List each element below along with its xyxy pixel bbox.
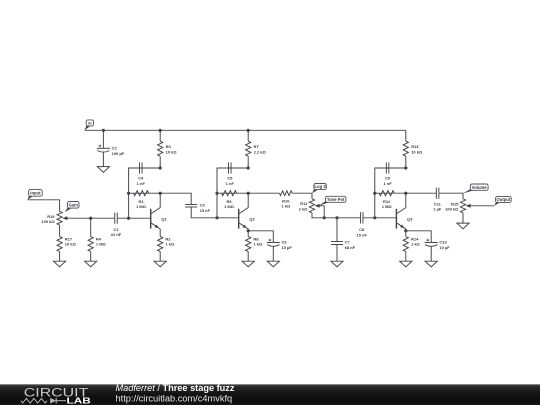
wire: C3 to Q2 base [191, 207, 239, 218]
svg-text:Q3: Q3 [407, 216, 413, 221]
capacitor C3 [185, 203, 210, 213]
node flag Lug 3 [312, 184, 326, 194]
capacitor C10 [425, 239, 451, 250]
wire: C10 to ground [430, 246, 432, 261]
wire: feedback loop stage 2 [217, 168, 248, 218]
capacitor C2 [97, 145, 125, 156]
wire: C7 column [336, 218, 338, 242]
wire: collector column Q1 [159, 193, 161, 208]
svg-text:68 nF: 68 nF [345, 245, 356, 250]
svg-text:10 kΩ: 10 kΩ [65, 242, 77, 247]
svg-text:2 kΩ: 2 kΩ [299, 206, 309, 211]
svg-text:1 nF: 1 nF [383, 181, 392, 186]
transistor Q1 [151, 208, 168, 229]
wire: R8 to ground [247, 252, 249, 262]
wire: R3 to collector node [159, 156, 161, 168]
wire: R12 row stage 3 [375, 192, 406, 194]
svg-text:1 MΩ: 1 MΩ [136, 204, 147, 209]
junction: base node stage 3 [373, 216, 376, 219]
junction: base node stage 1 [127, 217, 130, 220]
resistor R14 [403, 237, 420, 252]
wire: Q2 emitter node [247, 229, 249, 237]
ground (R17) [54, 261, 66, 267]
wire: input to gain pot [28, 200, 60, 212]
transistor Q3 [396, 208, 413, 229]
junction: wiper/bottom row [323, 216, 326, 219]
resistor R4 [88, 218, 106, 261]
ground (C7) [331, 261, 343, 267]
svg-text:15 nF: 15 nF [356, 232, 367, 237]
junction: collector node Q2 [247, 166, 250, 169]
wire: rail drop to R13 [405, 130, 407, 141]
junction: R12/base column [373, 192, 376, 195]
ground (R8) [242, 261, 254, 267]
svg-text:Output: Output [497, 197, 511, 202]
wire: R13 to collector node [405, 156, 407, 168]
potentiometer R15 (Volume) [445, 199, 494, 213]
wire: R10 to R11 [311, 193, 313, 199]
svg-text:22 nF: 22 nF [111, 232, 122, 237]
svg-text:1 µF: 1 µF [433, 207, 442, 212]
wire: Q3 emitter node [405, 229, 407, 237]
CircuitLab logo diode [50, 398, 56, 404]
svg-text:10 kΩ: 10 kΩ [411, 149, 423, 154]
CircuitLab logo resistor squiggle [21, 398, 47, 403]
svg-text:1 kΩ: 1 kΩ [253, 242, 263, 247]
node flag Input [28, 190, 43, 200]
resistor R6 [221, 191, 236, 210]
capacitor C2 lead wire [102, 130, 104, 148]
capacitor C8 [356, 212, 367, 237]
svg-text:Lug 3: Lug 3 [315, 184, 327, 189]
wire: wiper row to C1 [91, 217, 115, 219]
svg-text:1 nF: 1 nF [137, 181, 146, 186]
junction: R6/collector column [247, 192, 250, 195]
junction: rail/C2 [102, 129, 105, 132]
junction: R12/collector column [404, 192, 407, 195]
resistor R17 [57, 237, 77, 252]
capacitor C9 [383, 162, 392, 185]
potentiometer R11 (Tone Pot) [299, 199, 325, 213]
svg-text:10 kΩ: 10 kΩ [166, 149, 178, 154]
wire: R16 to R17 [59, 225, 61, 237]
capacitor C5 [226, 162, 235, 185]
ground (R4) [85, 261, 97, 267]
svg-text:1 MΩ: 1 MΩ [382, 204, 393, 209]
resistor R7 [246, 141, 267, 156]
svg-text:2.2 kΩ: 2.2 kΩ [254, 149, 267, 154]
wire: R7 to collector node [247, 156, 249, 168]
ground (R2) [154, 261, 166, 267]
svg-text:Q2: Q2 [249, 216, 255, 221]
svg-text:http://circuitlab.com/c4mvkfq: http://circuitlab.com/c4mvkfq [116, 394, 233, 404]
junction: C7 tap [335, 216, 338, 219]
wire: C11 to volume pot [439, 193, 463, 199]
svg-text:9v: 9v [88, 122, 92, 126]
svg-text:1 kΩ: 1 kΩ [165, 242, 175, 247]
wire: 9V supply rail [85, 129, 406, 131]
svg-text:100 kΩ: 100 kΩ [41, 219, 55, 224]
junction: wiper/R4 [89, 217, 92, 220]
svg-text:1 MΩ: 1 MΩ [96, 242, 107, 247]
junction: base node stage 2 [215, 216, 218, 219]
svg-text:100 µF: 100 µF [112, 151, 125, 156]
wire: collector column Q2 [247, 193, 249, 208]
potentiometer R16 (Gain) [41, 211, 90, 225]
resistor R3 [158, 141, 178, 156]
wire: emitter to C10 [406, 231, 431, 243]
svg-text:10 µF: 10 µF [282, 245, 293, 250]
ground (R15) [457, 223, 469, 229]
capacitor C11 [433, 188, 442, 212]
resistor R10 [248, 191, 312, 209]
node flag Gain [65, 202, 79, 213]
ground (C2) [97, 167, 109, 173]
svg-text:Volume: Volume [472, 185, 487, 190]
wire: C7 to ground [336, 245, 338, 262]
wire: R1 row stage 1 [129, 192, 161, 194]
svg-text:LAB: LAB [67, 395, 91, 405]
junction: R6/base column [215, 192, 218, 195]
junction: collector node Q1 [159, 166, 162, 169]
svg-text:Tone Pot: Tone Pot [327, 197, 345, 202]
resistor R2 [158, 237, 175, 252]
capacitor C4 [137, 162, 146, 185]
ground (R14) [400, 261, 412, 267]
wire: C6 to ground [272, 246, 274, 261]
capacitor C1 [111, 213, 122, 238]
svg-text:15 nF: 15 nF [200, 208, 211, 213]
transistor Q2 [239, 208, 256, 229]
wire: R17 to ground [59, 252, 61, 262]
footer bar background [0, 384, 540, 405]
svg-text:1 kΩ: 1 kΩ [411, 242, 421, 247]
capacitor C7 [331, 240, 356, 250]
wire: feedback loop stage 3 [375, 168, 406, 218]
wire: R6 row stage 2 [217, 192, 248, 194]
node flag Tone Pot [319, 196, 346, 206]
svg-text:Input: Input [30, 191, 41, 196]
svg-text:1 MΩ: 1 MΩ [224, 204, 235, 209]
wire: R14 to ground [405, 252, 407, 262]
resistor R3 lead [159, 130, 161, 141]
resistor R7 lead [247, 130, 249, 141]
wire: Q1 collector to C3 [160, 193, 191, 204]
wire: C8 to Q3 base [363, 217, 396, 219]
wire: R2 to ground [159, 252, 161, 262]
junction: collector node Q3 [404, 166, 407, 169]
wire: wiper down to bottom row [323, 206, 325, 218]
junction: rail/R3 [159, 129, 162, 132]
node flag Output [494, 196, 511, 205]
node flag 9v [85, 120, 94, 130]
svg-text:Q1: Q1 [161, 216, 167, 221]
svg-text:10 µF: 10 µF [439, 245, 450, 250]
resistor R12 [379, 191, 394, 210]
ground (C6) [267, 261, 279, 267]
junction: emitter node Q3 [404, 229, 407, 232]
node flag Volume [463, 184, 488, 193]
resistor R1 [133, 191, 148, 210]
svg-text:1 kΩ: 1 kΩ [281, 204, 291, 209]
wire: R11 bottom row [312, 213, 360, 218]
capacitor C6 [267, 239, 293, 250]
svg-text:Gain: Gain [69, 202, 79, 207]
wire: feedback loop stage 1 [129, 168, 161, 218]
wire: collector column Q3 [405, 193, 407, 208]
wire: Q1 emitter to R2 [159, 229, 161, 237]
wire: collector to C11 [406, 192, 437, 194]
junction: emitter node Q2 [247, 229, 250, 232]
junction: R1/collector column [159, 192, 162, 195]
svg-text:1 nF: 1 nF [226, 181, 235, 186]
ground (C10) [425, 261, 437, 267]
wire: emitter to C6 [248, 231, 273, 243]
junction: R1/base column [127, 192, 130, 195]
junction: rail/R7 [247, 129, 250, 132]
wire: R15 to ground [462, 213, 464, 223]
resistor R13 [403, 141, 423, 156]
resistor R8 [246, 237, 263, 252]
svg-text:Madferret / Three stage fuzz: Madferret / Three stage fuzz [116, 383, 235, 393]
wire: C1 to Q1 base [117, 217, 150, 219]
svg-text:100 kΩ: 100 kΩ [445, 207, 459, 212]
